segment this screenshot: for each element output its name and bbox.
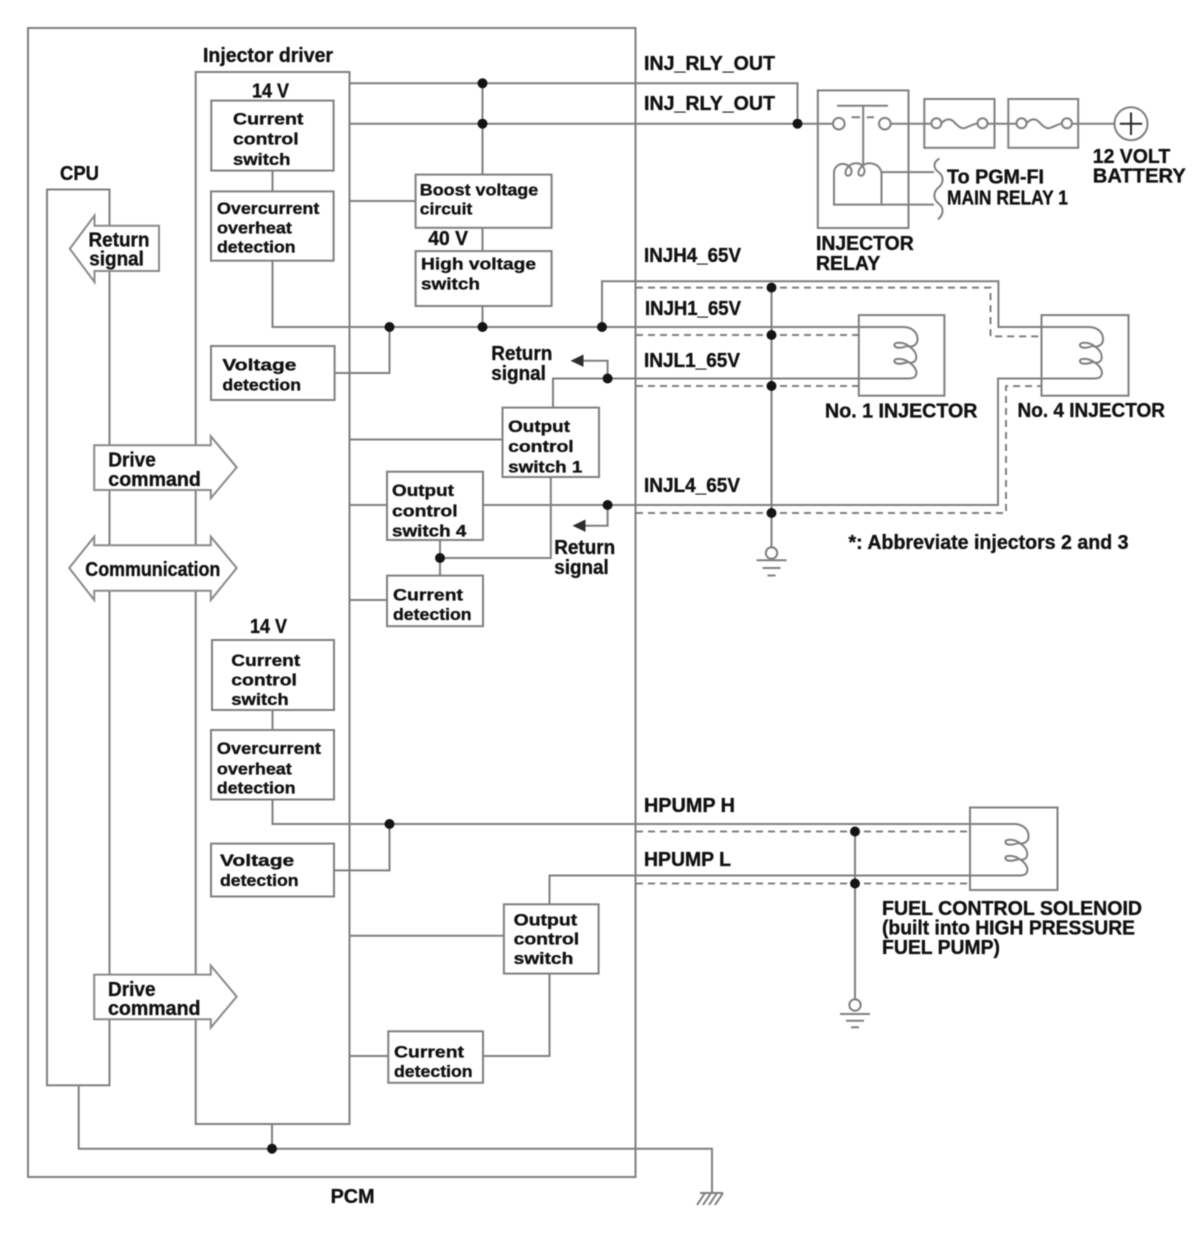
wire 65V rail / INJH1_65V xyxy=(390,326,859,328)
output control switch 1 box xyxy=(503,408,600,477)
ground injector shield xyxy=(757,547,787,575)
svg-text:switch: switch xyxy=(233,150,290,169)
dashed INJL1_65V xyxy=(636,385,859,387)
wire ocs3 left connect xyxy=(350,935,504,937)
svg-text:High voltage: High voltage xyxy=(421,255,536,274)
fuse 1 box xyxy=(924,99,994,148)
fuse 2 box xyxy=(1008,99,1078,148)
dashed INJL4_65V xyxy=(636,386,1042,513)
svg-text:No. 4 INJECTOR: No. 4 INJECTOR xyxy=(1018,400,1166,422)
svg-text:HPUMP L: HPUMP L xyxy=(644,849,731,871)
relay contact link dashes xyxy=(852,116,875,118)
svg-text:HPUMP H: HPUMP H xyxy=(644,795,735,817)
dashed INJH1_65V xyxy=(636,334,859,336)
svg-text:Overcurrent: Overcurrent xyxy=(217,739,321,758)
svg-text:detection: detection xyxy=(393,605,472,624)
svg-text:Voltage: Voltage xyxy=(222,355,296,374)
wire solenoid shield ground vertical xyxy=(854,832,856,1000)
wire injector driver bottom xyxy=(271,1124,273,1149)
fuel control solenoid box xyxy=(970,808,1058,891)
wire return signal tap 2 xyxy=(583,505,608,526)
svg-text:Current: Current xyxy=(394,1043,464,1062)
svg-text:INJECTOR: INJECTOR xyxy=(816,233,914,255)
svg-text:switch: switch xyxy=(231,690,288,709)
relay coil box xyxy=(834,172,882,205)
svg-text:Current: Current xyxy=(393,586,463,605)
svg-text:Return: Return xyxy=(554,537,615,559)
CPU box xyxy=(47,190,110,1086)
wire ocs3 bottom to current detection 2 xyxy=(483,974,550,1056)
overcurrent overheat detection 2 box xyxy=(211,730,334,800)
wire boost left connect xyxy=(350,200,416,202)
wire ccs1 to overcurrent1 xyxy=(272,171,274,191)
svg-text:INJH1_65V: INJH1_65V xyxy=(645,298,742,320)
svg-text:MAIN RELAY 1: MAIN RELAY 1 xyxy=(947,188,1068,210)
dashed HPUMP H xyxy=(636,831,970,833)
svg-text:signal: signal xyxy=(554,557,609,579)
svg-text:switch: switch xyxy=(421,275,480,294)
current control switch 2 box xyxy=(212,640,334,710)
svg-text:detection: detection xyxy=(394,1062,473,1081)
svg-text:*: Abbreviate injectors 2 and: *: Abbreviate injectors 2 and 3 xyxy=(849,532,1129,554)
voltage detection 1 box xyxy=(211,346,335,400)
svg-text:CPU: CPU xyxy=(60,163,99,185)
wire injector shield ground vertical xyxy=(771,288,773,547)
wire current detection 2 left connect xyxy=(350,1055,389,1057)
relay contact left xyxy=(833,118,845,130)
svg-text:control: control xyxy=(231,671,297,690)
injector relay box xyxy=(818,90,909,228)
arrow drive command 1 xyxy=(94,436,237,498)
relay contact right xyxy=(879,118,891,130)
no.1 injector box xyxy=(859,315,945,396)
wire fuse1 to fuse2 xyxy=(988,123,1017,125)
relay armature bar xyxy=(837,106,888,165)
fuse 2 contacts xyxy=(1017,118,1027,128)
svg-text:14 V: 14 V xyxy=(252,81,290,103)
fuse 1 contacts xyxy=(931,118,941,128)
wire relay to fuse 1 xyxy=(891,123,932,125)
svg-text:Output: Output xyxy=(392,481,454,500)
svg-text:detection: detection xyxy=(222,375,301,394)
output control switch 3 box xyxy=(504,904,599,973)
ground chassis bottom xyxy=(697,1193,723,1205)
svg-text:detection: detection xyxy=(220,871,299,890)
wire INJ_RLY_OUT top xyxy=(350,83,798,123)
svg-text:INJ_RLY_OUT: INJ_RLY_OUT xyxy=(644,53,775,75)
svg-text:switch: switch xyxy=(514,949,574,968)
dashed HPUMP L xyxy=(636,883,970,885)
svg-text:control: control xyxy=(233,129,299,148)
current detection 2 box xyxy=(388,1031,483,1083)
svg-text:overheat: overheat xyxy=(217,218,292,237)
fuse 2 element xyxy=(1027,119,1062,128)
svg-text:Return: Return xyxy=(491,343,552,365)
svg-text:Output: Output xyxy=(508,417,570,436)
svg-text:signal: signal xyxy=(491,363,546,385)
relay coil wires to brace xyxy=(882,172,935,205)
wire ocs4 to current detection 1 xyxy=(439,540,441,576)
wire fuse2 to battery xyxy=(1072,123,1115,125)
svg-text:INJL1_65V: INJL1_65V xyxy=(644,350,741,372)
wire CPU bottom to chassis ground xyxy=(79,1085,712,1192)
current detection 1 box xyxy=(387,576,483,627)
svg-text:detection: detection xyxy=(217,779,296,798)
wire overcurrent2 down to HPUMP H xyxy=(273,800,390,825)
no.4 injector coil xyxy=(1042,327,1104,379)
current control switch 1 box xyxy=(211,101,333,171)
arrowhead return 2 xyxy=(573,520,586,532)
svg-text:BATTERY: BATTERY xyxy=(1093,166,1187,188)
battery symbol xyxy=(1115,107,1148,140)
ground solenoid shield xyxy=(840,999,870,1027)
svg-text:Voltage: Voltage xyxy=(220,851,294,870)
svg-text:PCM: PCM xyxy=(331,1186,375,1208)
svg-text:command: command xyxy=(108,998,201,1020)
wire voltage detection 1 tap xyxy=(335,327,390,373)
svg-text:RELAY: RELAY xyxy=(816,253,881,275)
arrow return signal xyxy=(70,216,159,283)
svg-text:Current: Current xyxy=(231,651,300,670)
arrow communication xyxy=(69,537,237,600)
junction dots xyxy=(478,78,488,88)
svg-text:circuit: circuit xyxy=(420,200,473,219)
wire boost supply vertical xyxy=(482,83,484,175)
svg-text:No. 1 INJECTOR: No. 1 INJECTOR xyxy=(825,401,978,423)
svg-text:FUEL PUMP): FUEL PUMP) xyxy=(882,937,1000,959)
svg-text:Boost voltage: Boost voltage xyxy=(420,181,538,200)
wire INJL1_65V xyxy=(553,379,859,408)
svg-text:detection: detection xyxy=(217,238,296,257)
wire voltage detection 2 tap xyxy=(334,824,390,870)
svg-text:Current: Current xyxy=(233,109,304,128)
wire INJ_RLY_OUT lower xyxy=(350,123,834,125)
wire boost to high voltage switch xyxy=(482,228,484,251)
overcurrent overheat detection 1 box xyxy=(211,191,334,260)
svg-text:control: control xyxy=(392,501,458,520)
wire HPUMP H xyxy=(390,823,971,825)
svg-text:14 V: 14 V xyxy=(250,616,288,638)
svg-text:INJL4_65V: INJL4_65V xyxy=(644,475,741,497)
wire INJH4_65V xyxy=(602,281,1042,327)
svg-text:signal: signal xyxy=(89,249,144,271)
arrow drive command 2 xyxy=(94,966,237,1028)
wire ocs1 bottom xyxy=(440,477,551,558)
svg-text:switch 4: switch 4 xyxy=(392,522,467,541)
wire high voltage switch down xyxy=(482,306,484,327)
svg-text:INJ_RLY_OUT: INJ_RLY_OUT xyxy=(644,93,775,115)
boost voltage circuit box xyxy=(416,175,552,228)
relay coil xyxy=(834,163,882,176)
wire HPUMP L xyxy=(550,876,971,905)
brace to PGM-FI main relay xyxy=(934,159,942,220)
wire ocs4 left connect xyxy=(350,504,388,506)
wire overcurrent1 down to rail xyxy=(273,261,390,327)
wire ccs2 to overcurrent2 xyxy=(272,710,274,730)
svg-text:40 V: 40 V xyxy=(428,228,468,250)
injector driver box xyxy=(196,72,350,1124)
svg-text:command: command xyxy=(108,469,201,491)
svg-text:Overcurrent: Overcurrent xyxy=(217,199,320,218)
svg-text:Injector driver: Injector driver xyxy=(203,45,333,67)
voltage detection 2 box xyxy=(211,844,334,897)
wire INJL4_65V xyxy=(483,379,1042,506)
arrowhead return 1 xyxy=(571,355,584,367)
svg-text:To PGM-FI: To PGM-FI xyxy=(947,167,1044,189)
output control switch 4 box xyxy=(387,472,483,540)
PCM box xyxy=(28,28,636,1177)
svg-text:overheat: overheat xyxy=(217,759,292,778)
svg-text:INJH4_65V: INJH4_65V xyxy=(644,245,742,267)
fuse 1 element xyxy=(941,119,977,128)
fuel control solenoid coil xyxy=(970,824,1029,876)
high voltage switch box xyxy=(416,251,552,306)
svg-text:Communication: Communication xyxy=(85,559,220,581)
wire current detection 1 left connect xyxy=(350,599,388,601)
wire ocs1 left connect xyxy=(350,439,503,441)
dashed INJH4_65V xyxy=(636,288,1042,337)
wire return signal tap 1 xyxy=(581,361,608,379)
no.1 injector coil xyxy=(859,327,918,379)
svg-text:control: control xyxy=(514,930,580,949)
no.4 injector box xyxy=(1042,315,1129,396)
svg-text:control: control xyxy=(508,437,574,456)
svg-text:Output: Output xyxy=(514,911,578,930)
svg-text:switch 1: switch 1 xyxy=(508,457,582,476)
